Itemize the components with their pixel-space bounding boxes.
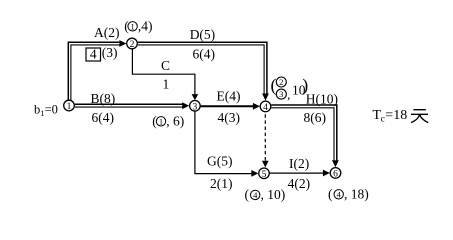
svg-text:4: 4 [90, 47, 97, 62]
node 4 [260, 101, 271, 112]
label b1=0 [34, 103, 58, 118]
node 1 [64, 100, 75, 111]
arrowhead dummy into node 5 [262, 161, 269, 168]
svg-text:1: 1 [130, 21, 134, 31]
svg-text:, 18): , 18) [344, 187, 369, 202]
svg-text:c: c [381, 114, 385, 124]
svg-text:4(3): 4(3) [218, 110, 241, 125]
arrowhead G into node 5 [251, 170, 258, 177]
arrowhead E into node 4 [253, 103, 260, 110]
arrowhead H into node 6 [332, 160, 339, 167]
svg-text:1: 1 [159, 116, 163, 126]
label Tc=18 tian [373, 108, 408, 124]
svg-text:C: C [161, 58, 170, 73]
svg-text:6: 6 [333, 169, 338, 179]
svg-text:2: 2 [279, 77, 283, 87]
hanzi tian drawn with strokes [411, 110, 428, 123]
svg-text:4: 4 [337, 189, 342, 199]
svg-text:1: 1 [163, 77, 170, 92]
label stacked (2 over 3, 10) earliest of node 4 [271, 75, 309, 102]
svg-text:4(2): 4(2) [288, 176, 311, 191]
label (4, 18) under node 6 [328, 187, 369, 202]
svg-text:1: 1 [67, 102, 72, 112]
wire A critical double line from node 1 up then right to node 2 [68, 42, 120, 100]
arrowhead I into node 6 [323, 170, 330, 177]
svg-text:4: 4 [263, 103, 268, 113]
svg-text:3: 3 [193, 102, 198, 112]
svg-text:4: 4 [253, 190, 258, 200]
boxed 4 free float [86, 48, 101, 61]
wire G single elbow from node 3 down then right to node 5 [195, 111, 252, 173]
svg-text:6(4): 6(4) [92, 110, 115, 125]
wire I single from node 5 to node 6 [270, 172, 324, 174]
node 5 [259, 168, 270, 179]
svg-text:5: 5 [262, 170, 267, 180]
wire dummy dashed from node 4 down to node 5 [264, 114, 266, 160]
wire H critical double line from node 4 right then down to node 6 [271, 105, 337, 160]
svg-text:B(8): B(8) [91, 91, 116, 106]
arrowhead B into node 3 [182, 102, 189, 109]
label (4, 10) under node 5 [245, 187, 286, 202]
svg-text:I(2): I(2) [289, 156, 309, 171]
svg-text:G(5): G(5) [207, 154, 233, 169]
wire B critical double line from node 1 to node 3 [75, 104, 183, 107]
svg-text:, 10): , 10) [261, 187, 286, 202]
svg-text:8(6): 8(6) [304, 110, 327, 125]
svg-text:(3): (3) [102, 45, 118, 60]
node 2 [127, 38, 138, 49]
svg-text:, 6): , 6) [166, 114, 184, 129]
svg-text:D(5): D(5) [190, 27, 216, 42]
arrowhead A into node 2 [119, 40, 126, 47]
svg-text:,: , [287, 88, 290, 102]
svg-text:=0: =0 [45, 103, 58, 117]
wire D critical double line from node 2 right then down to node 4 [138, 42, 267, 93]
label (1,4) earliest time of node 2 [124, 19, 152, 34]
svg-text:(: ( [328, 187, 333, 202]
label (1, 6) [152, 114, 184, 129]
svg-text:(: ( [124, 19, 129, 34]
svg-text:=18: =18 [385, 108, 407, 123]
svg-text:6(4): 6(4) [193, 47, 216, 62]
svg-text:,4): ,4) [138, 19, 153, 34]
svg-text:A(2): A(2) [94, 25, 120, 40]
svg-text:(: ( [245, 187, 250, 202]
arrowhead C into node 3 top [192, 94, 199, 100]
svg-text:2(1): 2(1) [210, 176, 233, 191]
svg-text:3: 3 [279, 89, 283, 99]
wire C single elbow from node 2 down right down to node 3 [132, 49, 195, 94]
node 3 [190, 101, 201, 112]
svg-text:H(10): H(10) [306, 92, 338, 107]
svg-text:(: ( [271, 75, 277, 96]
node 6 [330, 168, 341, 179]
arrowhead D into node 4 [262, 94, 269, 101]
svg-text:E(4): E(4) [217, 89, 241, 104]
wire E single from node 3 to node 4 [200, 105, 253, 107]
svg-text:2: 2 [130, 40, 135, 50]
